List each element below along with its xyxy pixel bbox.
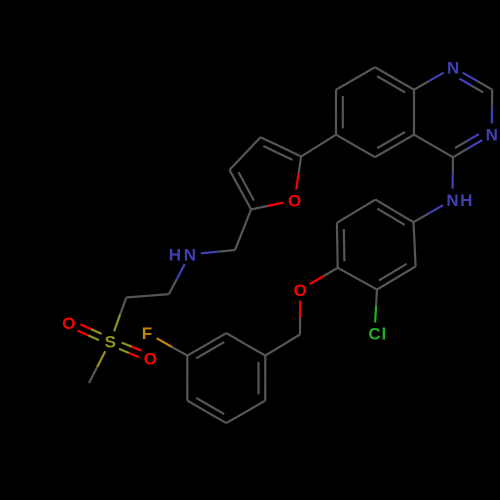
- bond CH2a-CH2b: [126, 294, 168, 297]
- svg-text:H: H: [460, 191, 472, 210]
- svg-text:N: N: [486, 126, 498, 145]
- sulfonyl O left: [62, 314, 75, 333]
- sulfonyl O right: [144, 349, 157, 368]
- HN label: [169, 246, 196, 265]
- bond C8-C8a: [375, 67, 414, 92]
- svg-text:N: N: [447, 58, 459, 77]
- furan O label: [288, 192, 301, 211]
- bond C4fp-C5fp: [187, 398, 226, 423]
- bond C2f-C3f: [261, 137, 302, 160]
- bond C4a-C5: [375, 132, 414, 157]
- svg-text:H: H: [169, 246, 181, 265]
- bond Of-C2f: [296, 157, 301, 190]
- F label: [142, 324, 152, 343]
- bond C4a-C8a: [413, 90, 415, 135]
- bond C5-C6: [336, 135, 375, 158]
- svg-text:N: N: [446, 191, 458, 210]
- bond N1-C2: [459, 73, 492, 93]
- svg-text:C: C: [368, 325, 380, 344]
- bond C6p-C1p: [376, 200, 414, 225]
- bond N3-C4: [453, 134, 482, 157]
- svg-text:O: O: [294, 281, 307, 300]
- bond S-CH3: [89, 351, 105, 383]
- bond C3p-Cl: [375, 290, 377, 323]
- bond CH2b-S: [114, 297, 126, 331]
- bond C3fp-C4fp: [186, 356, 188, 401]
- bond C2p-C3p: [377, 264, 416, 290]
- S label: [105, 333, 116, 352]
- bond C3f-C4f: [230, 137, 261, 170]
- bond C4p-C5p: [337, 223, 345, 268]
- bond C3fp-F: [157, 338, 188, 355]
- bond C5f-Of: [251, 203, 284, 210]
- bond C7-C8: [336, 67, 375, 90]
- bond S-O3: [78, 324, 102, 340]
- bond C6-C2f: [301, 135, 336, 157]
- bond C4-C4a: [414, 135, 453, 158]
- svg-text:O: O: [144, 349, 157, 368]
- svg-text:O: O: [62, 314, 75, 333]
- bond C4-Nnh: [452, 157, 455, 189]
- svg-text:l: l: [382, 325, 387, 344]
- bond C4f-C5f: [230, 170, 255, 210]
- svg-text:F: F: [142, 324, 152, 343]
- svg-text:N: N: [184, 246, 196, 265]
- bond C1p-C2p: [414, 222, 416, 266]
- bond C5fp-C6fp: [226, 401, 265, 424]
- bond CH2c-Nam: [201, 250, 235, 253]
- svg-text:S: S: [105, 333, 116, 352]
- bond Nam-CH2a: [169, 264, 185, 294]
- bond C2fp-C3fp: [187, 333, 226, 358]
- bond C6fp-C1f: [259, 356, 266, 401]
- svg-text:O: O: [288, 192, 301, 211]
- NH label: [446, 191, 472, 210]
- N1 label: [447, 58, 459, 77]
- ether O label: [294, 281, 307, 300]
- bond C2-N3: [491, 90, 494, 124]
- bond C8a-N1: [414, 73, 444, 90]
- N3 label: [486, 126, 498, 145]
- bond C4p-Oe: [310, 268, 338, 284]
- bond Nnh-C1p: [414, 205, 444, 222]
- bond C5p-C6p: [337, 200, 376, 223]
- bond Oe-CH2bz: [299, 301, 301, 335]
- bond C1f-C2fp: [226, 333, 265, 356]
- bond CH2bz-C1f: [265, 335, 300, 356]
- bond S-O4: [119, 343, 142, 358]
- Cl label: [368, 325, 386, 344]
- bond C3p-C4p: [338, 268, 377, 290]
- bond C5f-CH2c: [235, 209, 251, 250]
- bond C6-C7: [336, 90, 343, 135]
